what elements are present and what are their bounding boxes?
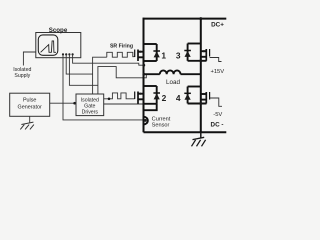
wire left leg xyxy=(143,18,145,133)
svg-text:Generator: Generator xyxy=(18,105,42,111)
ground DC- xyxy=(200,132,202,138)
transistor Q1 xyxy=(138,44,157,61)
wire pulse generator to ground xyxy=(29,116,31,123)
current sensor loop xyxy=(144,117,148,125)
svg-text:Load: Load xyxy=(166,79,181,86)
wire scope probe 2 to driver input V1 xyxy=(66,54,92,74)
ground pulse generator xyxy=(20,122,34,129)
node driver output dot xyxy=(108,98,111,101)
svg-text:1: 1 xyxy=(161,51,166,61)
svg-text:+15V: +15V xyxy=(210,69,224,75)
SR firing waveform to Q1 gate xyxy=(107,52,135,57)
wire pulse generator output xyxy=(50,102,76,104)
transistor Q4 xyxy=(188,87,207,104)
wire isolated supply to scope xyxy=(23,52,35,66)
node probe junction on left leg xyxy=(142,64,145,67)
scope screen xyxy=(38,35,58,55)
DC- rail xyxy=(144,131,227,133)
svg-text:-5V: -5V xyxy=(213,112,222,118)
svg-text:2: 2 xyxy=(162,93,167,103)
svg-text:3: 3 xyxy=(176,51,181,61)
isolated gate drivers box xyxy=(76,94,104,116)
svg-text:Scope: Scope xyxy=(49,27,68,34)
svg-text:Current: Current xyxy=(152,116,171,122)
scope box xyxy=(36,33,81,58)
diode D3 xyxy=(187,44,189,61)
node pulse gen output dot xyxy=(73,102,76,105)
wire driver source return to Q2 source xyxy=(104,103,144,105)
DC+ rail xyxy=(143,18,227,20)
wire scope probe 1 to current sensor xyxy=(63,54,144,120)
transistor Q3 xyxy=(188,44,207,61)
svg-text:Pulse: Pulse xyxy=(23,98,37,104)
wire driver V2 riser to load node xyxy=(98,67,146,94)
pulse generator box xyxy=(10,93,50,116)
svg-text:SR Firing: SR Firing xyxy=(110,44,133,50)
svg-text:Drivers: Drivers xyxy=(82,109,99,115)
wire driver output to Q2 gate xyxy=(104,93,135,99)
svg-text:DC+: DC+ xyxy=(211,21,224,28)
wire Q4 gate to -5V xyxy=(210,98,222,106)
diode D4 xyxy=(187,87,189,104)
svg-text:DC -: DC - xyxy=(211,122,224,129)
diode D2 xyxy=(156,86,158,104)
svg-text:4: 4 xyxy=(176,93,181,103)
node load left junction xyxy=(142,73,145,76)
wire Q2 source return loop xyxy=(144,104,157,110)
transistor Q2 xyxy=(138,86,157,104)
svg-text:Supply: Supply xyxy=(14,73,30,79)
scope probe terminal dots xyxy=(62,53,74,55)
node DC+ junction xyxy=(199,17,202,20)
scope waveform xyxy=(41,41,56,52)
wire scope probe 4 to switch node xyxy=(73,54,144,65)
svg-text:Sensor: Sensor xyxy=(152,123,170,129)
diode D1 xyxy=(156,44,158,61)
node current sensor dot xyxy=(144,119,147,122)
wire scope probe 3 to driver input V2 xyxy=(69,54,98,85)
inductor load xyxy=(144,70,201,74)
wire Q3 gate to +15V xyxy=(210,58,222,62)
wire right leg xyxy=(200,19,202,133)
wire driver V1 riser to SR firing xyxy=(93,57,107,94)
